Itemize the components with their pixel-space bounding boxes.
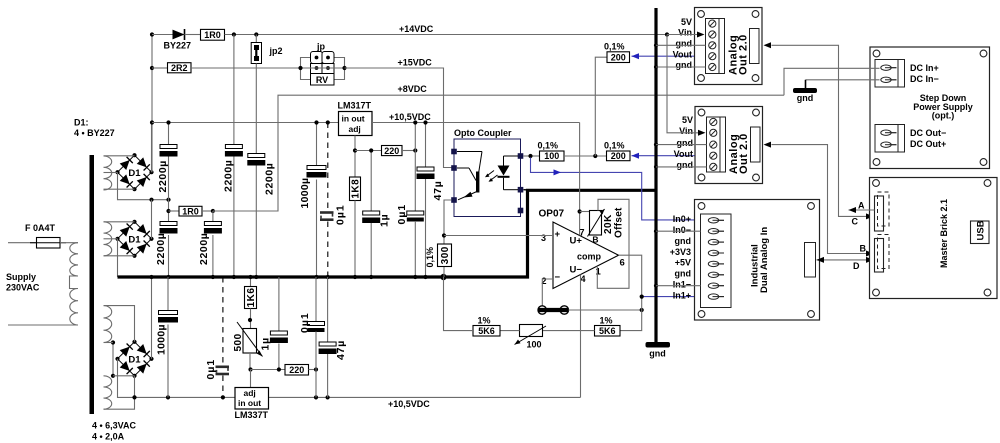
- svg-text:+10,5VDC: +10,5VDC: [389, 112, 431, 122]
- svg-text:gnd: gnd: [675, 236, 692, 246]
- svg-text:Vin: Vin: [678, 28, 692, 38]
- svg-text:Offset: Offset: [614, 207, 625, 238]
- module2 terminal block: [707, 117, 726, 172]
- svg-text:1%: 1%: [478, 315, 491, 325]
- capacitor 1u upper: [362, 148, 390, 277]
- svg-text:gnd: gnd: [677, 160, 694, 170]
- svg-text:Opto Coupler: Opto Coupler: [454, 128, 512, 138]
- wire 200 upper drop: [595, 57, 607, 156]
- wire offset pot loop to pin1: [597, 199, 629, 288]
- blue wire In1+: [642, 296, 701, 298]
- module Analog Out 2.0 #1 board: [695, 8, 763, 85]
- svg-text:+3V3: +3V3: [670, 247, 691, 257]
- svg-text:2200µ: 2200µ: [157, 160, 169, 192]
- potentiometer 500: [233, 322, 263, 370]
- jumper block jp / RV: [298, 41, 346, 85]
- svg-text:2200µ: 2200µ: [155, 233, 167, 265]
- transformer primary winding upper: [70, 243, 78, 276]
- svg-text:DC In+: DC In+: [910, 63, 939, 73]
- svg-text:1: 1: [596, 267, 602, 278]
- wire opto collector out: [524, 154, 540, 158]
- junction dot pin3: [442, 233, 446, 237]
- svg-text:2200µ: 2200µ: [264, 163, 276, 195]
- ground symbol bus: [646, 342, 671, 359]
- module2 pin labels: [674, 115, 693, 170]
- svg-text:jp2: jp2: [269, 46, 283, 56]
- capacitor 47u upper: [417, 120, 445, 277]
- junction dot pot bottom: [248, 367, 252, 371]
- svg-text:in out: in out: [238, 398, 261, 408]
- svg-text:D1: D1: [128, 168, 141, 179]
- transformer secondary winding 1: [104, 156, 112, 190]
- svg-text:100: 100: [544, 151, 559, 161]
- resistor 1R0 top: [201, 29, 225, 40]
- svg-text:(opt.): (opt.): [932, 111, 955, 121]
- svg-text:+5V: +5V: [675, 258, 691, 268]
- svg-text:B: B: [860, 244, 867, 254]
- stepdown DC Out connector: [875, 125, 905, 153]
- svg-text:C: C: [852, 217, 859, 227]
- capacitor 47u lower: [319, 277, 347, 397]
- wire DC In+ feed: [784, 68, 880, 95]
- svg-text:200: 200: [611, 52, 626, 62]
- svg-text:6: 6: [620, 258, 625, 269]
- resistor 1K6: [245, 275, 258, 329]
- junction dots negative rail: [132, 395, 329, 399]
- label winding legend: [92, 421, 137, 442]
- capacitor 2200u (+14 net): [223, 35, 243, 278]
- svg-text:B: B: [592, 235, 598, 245]
- bridge rectifier D1 middle: [115, 220, 153, 258]
- wire LM317 adj pin: [353, 136, 357, 178]
- wire to diode: [152, 34, 173, 36]
- wire 100 pot to 5K6 left: [500, 330, 520, 332]
- capacitor 0u1 in dashed line lower: [205, 359, 229, 380]
- wire winding1 to bridge1 bottom: [104, 188, 135, 190]
- svg-text:Master Brick 2.1: Master Brick 2.1: [939, 199, 949, 268]
- capacitor 0u1 in dashed line upper: [320, 204, 347, 225]
- stepdown labels: [910, 63, 973, 149]
- opto coupler box: [454, 139, 521, 217]
- bus junction dots: [654, 43, 658, 288]
- bridge rectifier D1 bottom: [115, 340, 153, 378]
- svg-text:Supply: Supply: [6, 272, 36, 282]
- resistor 220 lower: [251, 365, 319, 376]
- module2 rotated label: [728, 133, 750, 174]
- capacitor 2200u C1: [157, 120, 178, 199]
- opto pins right: [518, 153, 524, 213]
- svg-text:2200µ: 2200µ: [223, 160, 235, 192]
- wire +14VDC line: [225, 34, 699, 36]
- op-amp U1 triangle: [553, 222, 619, 289]
- wire +10.5VDC rail: [372, 122, 580, 124]
- svg-text:jp: jp: [316, 41, 326, 51]
- svg-text:1000µ: 1000µ: [299, 178, 311, 209]
- svg-text:7: 7: [580, 227, 585, 237]
- wire link to bridge3 bottom: [113, 375, 135, 377]
- module3 pin labels: [670, 214, 691, 300]
- svg-text:3: 3: [541, 233, 546, 243]
- wire bridge2 left to gnd rail: [117, 239, 119, 277]
- svg-text:300: 300: [440, 246, 451, 264]
- wire pin6 output: [619, 255, 644, 330]
- master brick connector 1: [875, 192, 890, 231]
- label +10,5VDC lower: [388, 399, 430, 409]
- wire diode to 1R0: [185, 34, 201, 36]
- capacitor 1000u lower: [156, 277, 179, 397]
- svg-text:DC In−: DC In−: [910, 74, 939, 84]
- wire winding3a to bridge3 top: [104, 306, 135, 342]
- regulator LM337T: [235, 388, 269, 420]
- svg-text:in out: in out: [342, 113, 365, 123]
- wire opto gnd pin: [524, 189, 529, 191]
- wire bridge3 left down to neg rail: [118, 359, 236, 398]
- svg-text:0µ1: 0µ1: [205, 359, 217, 380]
- svg-text:BY227: BY227: [164, 40, 192, 50]
- wire top riser x152: [151, 35, 153, 173]
- svg-text:0,1%: 0,1%: [604, 141, 625, 151]
- wire D line: [817, 257, 874, 263]
- bridge rectifier D1 top: [115, 153, 153, 191]
- junction dots x152: [150, 32, 154, 124]
- svg-text:20K: 20K: [603, 214, 614, 234]
- svg-text:230VAC: 230VAC: [6, 283, 40, 293]
- capacitor 0u1 upper: [396, 120, 424, 277]
- wire winding3a bottom to link: [104, 342, 114, 344]
- svg-text:gnd: gnd: [649, 349, 666, 359]
- svg-text:1K6: 1K6: [246, 288, 257, 308]
- wire negative rail: [269, 396, 581, 398]
- wire A line: [849, 207, 875, 213]
- svg-text:+10,5VDC: +10,5VDC: [388, 399, 430, 409]
- label +8VDC: [398, 84, 428, 94]
- blue wire Vout1 to 200: [632, 53, 706, 59]
- svg-text:4 • 6,3VAC: 4 • 6,3VAC: [92, 421, 137, 431]
- svg-text:500: 500: [233, 333, 244, 351]
- potentiometer 20K Offset: [588, 207, 625, 245]
- svg-text:LM337T: LM337T: [235, 410, 269, 420]
- svg-text:Vin: Vin: [679, 126, 693, 136]
- capacitor 2200u (+15 net): [247, 68, 275, 277]
- svg-text:1R0: 1R0: [204, 30, 221, 40]
- svg-text:+: +: [555, 229, 561, 240]
- pin labels OP07: [541, 227, 625, 286]
- thick ground rail: [118, 190, 657, 277]
- dashed shield line lower part2: [222, 376, 224, 398]
- svg-text:1%: 1%: [600, 315, 613, 325]
- svg-text:47µ: 47µ: [432, 180, 444, 200]
- wire winding3b bottom to bridge3 bottom: [104, 376, 135, 409]
- svg-text:+8VDC: +8VDC: [398, 84, 428, 94]
- module Industrial Dual Analog In board: [695, 200, 820, 321]
- svg-text:0,1%: 0,1%: [538, 141, 559, 151]
- wire winding2 to bridge2 bottom: [104, 255, 135, 257]
- wire jumper to feedback node: [569, 308, 644, 312]
- wire 100 to 200: [564, 154, 607, 158]
- svg-text:−: −: [555, 272, 561, 283]
- wire pin3 input: [444, 235, 553, 237]
- resistor 220 upper: [355, 146, 417, 156]
- master brick connector 2: [875, 235, 890, 273]
- svg-text:OP07: OP07: [539, 208, 565, 219]
- svg-text:DC Out−: DC Out−: [910, 128, 946, 138]
- opto transistor: [457, 152, 482, 200]
- svg-text:Out 2.0: Out 2.0: [738, 133, 750, 174]
- dashed shield line upper lower part: [327, 222, 329, 278]
- module Master Brick 2.1 board: [870, 178, 998, 299]
- svg-text:0,1%: 0,1%: [425, 247, 435, 268]
- opto pins left: [451, 149, 457, 203]
- transformer primary winding tap jog: [70, 276, 79, 289]
- svg-text:In1+: In1+: [673, 290, 691, 300]
- resistor 5K6 right 1%: [595, 315, 621, 336]
- master brick rotated label: [939, 199, 949, 268]
- wire DC In- to gnd: [806, 79, 880, 81]
- dashed shield line lower: [222, 277, 224, 365]
- wire +8VDC line: [213, 95, 784, 211]
- wire winding1 to bridge1 top: [104, 155, 135, 157]
- master brick USB: [971, 220, 990, 243]
- wire pot to LM337 adj: [250, 370, 252, 388]
- wire winding2 tap to bridge2 left: [104, 238, 118, 240]
- svg-text:200: 200: [611, 151, 626, 161]
- module1 pin labels: [673, 17, 692, 70]
- transformer secondary winding 3a: [104, 306, 112, 343]
- node A junction dots: [149, 198, 170, 202]
- blue wire Vout2 to 200: [632, 153, 707, 159]
- resistor 1R0 second: [166, 200, 215, 222]
- svg-text:In0−: In0−: [673, 225, 691, 235]
- wire pin2 input: [542, 279, 553, 306]
- module Step Down Power Supply board: [870, 47, 990, 169]
- wire module1 output to C: [764, 42, 874, 219]
- transformer secondary winding 3b: [104, 376, 112, 409]
- module1 rotated label: [728, 34, 750, 75]
- transformer core: [90, 155, 95, 414]
- module3 rotated label: [750, 227, 771, 293]
- wire supply line bottom: [8, 324, 78, 326]
- wire Vin1 arrow: [667, 32, 705, 38]
- jumper jp2: [251, 35, 282, 69]
- svg-text:4: 4: [581, 274, 586, 284]
- svg-text:2R2: 2R2: [171, 63, 188, 73]
- capacitor 1u lower: [260, 277, 288, 372]
- svg-text:gnd: gnd: [675, 269, 692, 279]
- module3 terminal block: [701, 214, 732, 308]
- wire pin7 supply: [578, 123, 582, 236]
- label Supply 230VAC: [6, 272, 40, 293]
- label +15VDC: [398, 58, 433, 68]
- label +14VDC: [399, 24, 434, 34]
- svg-text:220: 220: [289, 365, 304, 375]
- measurement jumper: [538, 306, 569, 314]
- svg-text:D1:: D1:: [74, 118, 89, 128]
- capacitor 2200u C2: [155, 222, 178, 278]
- module3 right connector: [805, 243, 816, 278]
- svg-text:Dual Analog In: Dual Analog In: [759, 227, 770, 293]
- svg-text:Vout: Vout: [674, 149, 693, 159]
- transformer primary winding lower: [70, 289, 78, 326]
- svg-text:gnd: gnd: [676, 60, 693, 70]
- svg-text:In1−: In1−: [673, 280, 691, 290]
- svg-text:A: A: [858, 201, 865, 211]
- resistor 5K6 left 1%: [473, 315, 500, 336]
- svg-text:100: 100: [527, 340, 542, 350]
- svg-text:gnd: gnd: [677, 138, 694, 148]
- svg-text:USB: USB: [976, 220, 987, 240]
- wire 5K6 left to gnd: [444, 277, 474, 331]
- svg-text:5V: 5V: [681, 17, 692, 27]
- svg-text:1µ: 1µ: [379, 214, 391, 228]
- svg-text:In0+: In0+: [673, 214, 691, 224]
- labels A C: [852, 201, 866, 227]
- wire pin4 supply: [580, 275, 582, 398]
- capacitor 1000u upper: [299, 120, 327, 277]
- label Opto Coupler: [454, 128, 512, 138]
- svg-text:+14VDC: +14VDC: [399, 24, 434, 34]
- label OP07: [539, 208, 565, 219]
- wire +14 rail to LM317: [152, 122, 339, 124]
- potentiometer 100: [515, 325, 547, 350]
- svg-text:5K6: 5K6: [599, 326, 616, 336]
- wire bridge1 right to +14 rail: [151, 123, 153, 173]
- wire winding2 to bridge2 top: [104, 221, 135, 223]
- wire pin7 to offset pot: [580, 211, 590, 213]
- fuse F 0A4T: [25, 223, 66, 248]
- wire bridge1 left to node A: [118, 172, 169, 200]
- svg-text:5K6: 5K6: [478, 326, 495, 336]
- label +10,5VDC upper: [389, 112, 431, 122]
- svg-text:2200µ: 2200µ: [198, 233, 210, 265]
- svg-text:LM317T: LM317T: [338, 101, 372, 111]
- resistor 2R2: [152, 63, 191, 73]
- wire node A to bridge2 right: [151, 200, 153, 239]
- junction dots on +14VDC: [232, 32, 669, 36]
- wire winding1 tap to bridge1 left: [104, 172, 118, 174]
- svg-text:1000µ: 1000µ: [156, 324, 168, 355]
- wire opto emitter to pin3 node: [444, 200, 452, 277]
- svg-text:D1: D1: [128, 354, 141, 365]
- svg-text:DC Out+: DC Out+: [910, 139, 946, 149]
- resistor 200 lower 0,1%: [604, 141, 630, 161]
- svg-text:220: 220: [384, 146, 399, 156]
- wire 5K6 to 100 pot: [543, 330, 595, 332]
- wire gnd rail to bridge3 right: [151, 277, 153, 359]
- wire 2R2 to RV block: [191, 67, 301, 69]
- capacitor 0u1 lower: [299, 277, 325, 397]
- module1 terminal block: [706, 19, 725, 74]
- svg-text:adj: adj: [349, 124, 361, 134]
- opto light arrows: [485, 171, 498, 182]
- module2 right connector: [751, 127, 761, 162]
- opto led: [498, 156, 519, 190]
- resistor 1K8: [350, 177, 362, 277]
- resistor 300 with 0,1%: [425, 244, 452, 268]
- svg-text:4 • BY227: 4 • BY227: [74, 128, 115, 138]
- svg-text:0µ1: 0µ1: [335, 204, 347, 225]
- svg-text:1µ: 1µ: [260, 337, 272, 351]
- svg-text:gnd: gnd: [676, 39, 693, 49]
- svg-text:gnd: gnd: [797, 93, 814, 103]
- transformer secondary winding 2: [104, 222, 112, 256]
- svg-text:adj: adj: [244, 388, 256, 398]
- ground rail junction dots: [149, 274, 446, 280]
- module1 right connector: [750, 29, 760, 64]
- stepdown DC In connector: [875, 60, 905, 88]
- wire +15VDC line: [345, 68, 452, 168]
- module Analog Out 2.0 #2 board: [695, 107, 763, 184]
- svg-text:4 • 2,0A: 4 • 2,0A: [92, 432, 125, 442]
- svg-text:D1: D1: [128, 234, 141, 245]
- svg-text:+15VDC: +15VDC: [398, 58, 433, 68]
- ground symbol stepdown: [793, 80, 817, 103]
- resistor 200 upper 0,1%: [604, 42, 630, 63]
- ground bus: [654, 8, 657, 342]
- svg-text:1K8: 1K8: [351, 179, 362, 199]
- labels B D: [853, 244, 867, 272]
- blue wire opto to In0+: [531, 158, 701, 220]
- svg-text:D: D: [853, 261, 860, 271]
- label D1 legend: [74, 118, 115, 139]
- wire Vin2 drop: [667, 35, 706, 136]
- svg-text:0µ1: 0µ1: [396, 204, 408, 225]
- svg-text:47µ: 47µ: [335, 340, 347, 360]
- svg-text:Out 2.0: Out 2.0: [738, 34, 750, 75]
- wire module2 gnd rows: [656, 145, 707, 167]
- capacitor 2200u C6: [198, 211, 222, 277]
- wire module1 gnd rows: [656, 45, 706, 67]
- diode BY227: [164, 29, 192, 50]
- wire module3 In0- In1-: [656, 231, 701, 286]
- svg-text:RV: RV: [316, 75, 328, 85]
- svg-text:0µ1: 0µ1: [299, 312, 311, 333]
- dashed shield line upper: [326, 120, 330, 210]
- svg-text:5V: 5V: [682, 115, 693, 125]
- svg-text:0,1%: 0,1%: [604, 42, 625, 52]
- svg-text:1R0: 1R0: [182, 206, 199, 216]
- svg-text:F 0A4T: F 0A4T: [25, 223, 56, 233]
- wire winding3 series link: [111, 340, 115, 378]
- wire fuse to primary: [60, 242, 78, 244]
- svg-text:comp: comp: [577, 252, 602, 262]
- wire supply line top: [8, 242, 37, 244]
- svg-text:Vout: Vout: [673, 49, 692, 59]
- wire module2 output to B: [764, 142, 874, 257]
- resistor 100 0,1%: [538, 141, 565, 162]
- regulator LM317T: [338, 101, 373, 136]
